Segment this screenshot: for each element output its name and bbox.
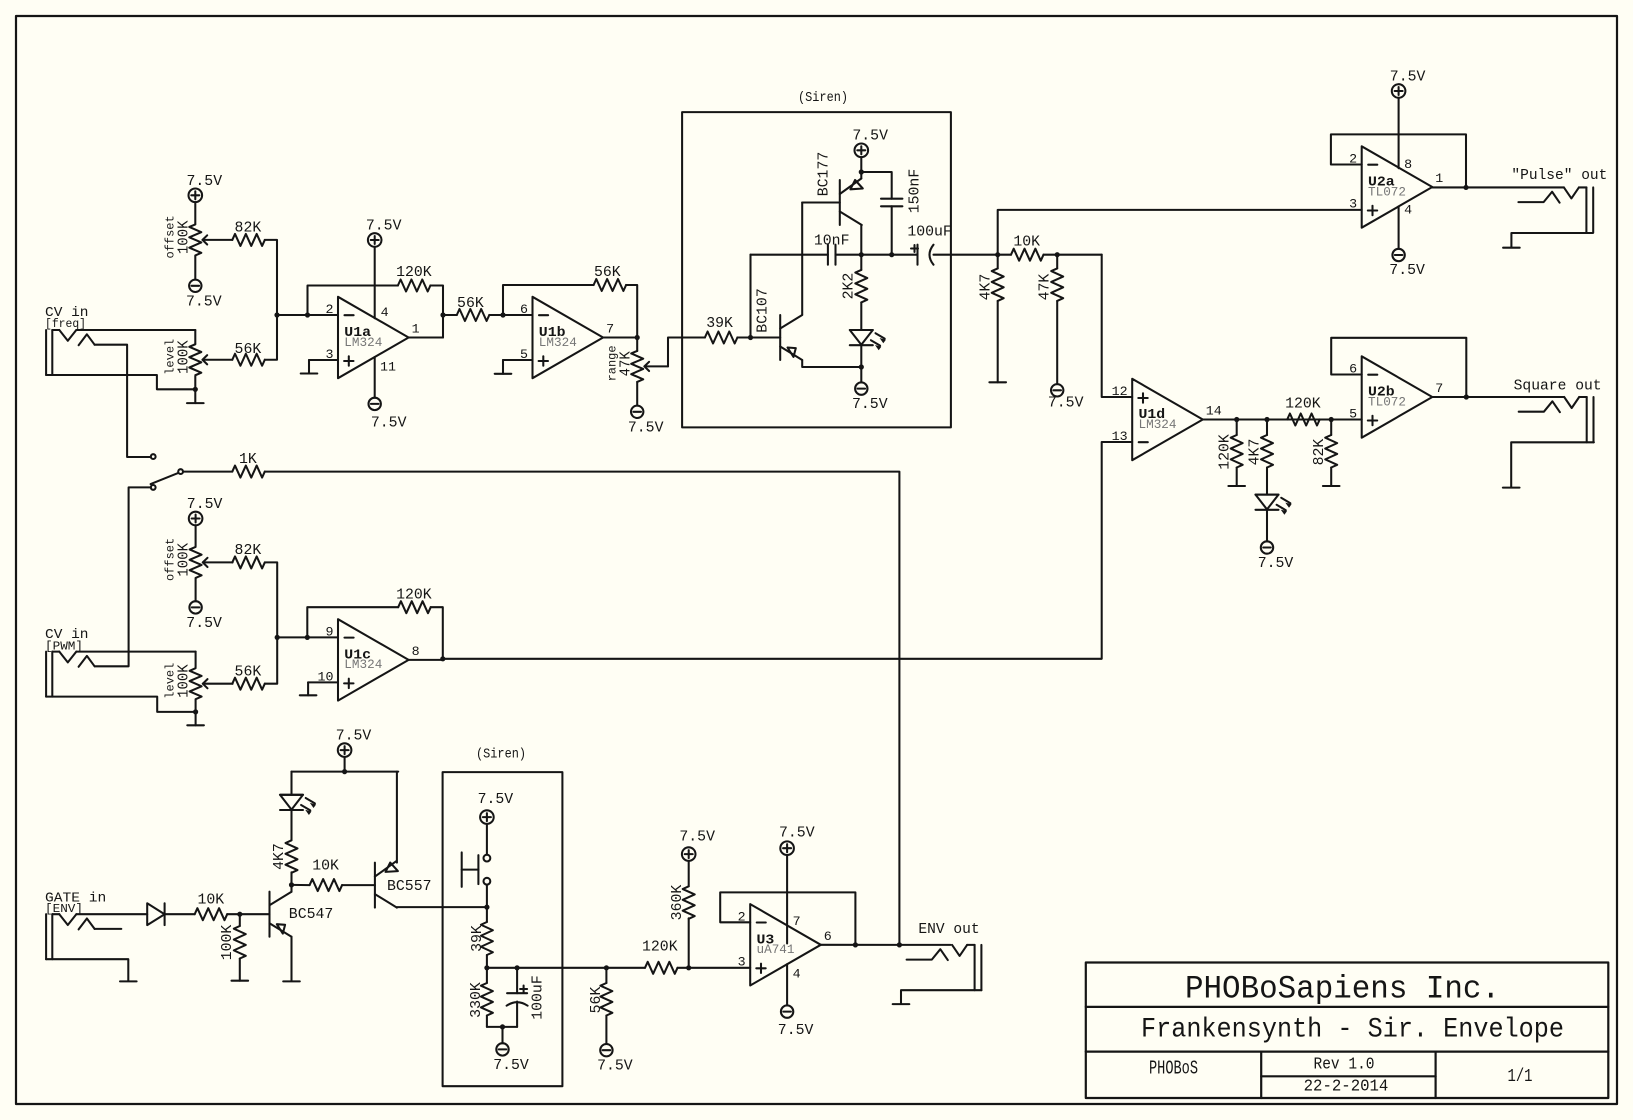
svg-text:uA741: uA741 (757, 943, 795, 957)
svg-text:TL072: TL072 (1368, 395, 1406, 409)
svg-text:39K: 39K (706, 315, 733, 332)
svg-text:(Siren): (Siren) (798, 91, 848, 106)
svg-text:7.5V: 7.5V (679, 829, 715, 846)
svg-text:13: 13 (1112, 429, 1128, 444)
svg-text:6: 6 (520, 302, 528, 317)
svg-text:47K: 47K (617, 351, 634, 376)
svg-text:4K7: 4K7 (1247, 439, 1264, 466)
svg-text:22-2-2014: 22-2-2014 (1304, 1077, 1389, 1096)
svg-text:100K: 100K (219, 925, 236, 961)
svg-text:BC107: BC107 (754, 288, 771, 333)
svg-text:10K: 10K (312, 858, 339, 875)
svg-text:4: 4 (793, 966, 801, 981)
svg-text:9: 9 (326, 624, 334, 639)
svg-text:PHOBoS: PHOBoS (1149, 1058, 1198, 1080)
svg-text:Frankensynth - Sir. Envelope: Frankensynth - Sir. Envelope (1141, 1014, 1564, 1045)
svg-text:3: 3 (1349, 197, 1357, 212)
svg-text:100K: 100K (176, 664, 193, 698)
svg-text:(Siren): (Siren) (476, 747, 526, 762)
svg-text:120K: 120K (1285, 396, 1321, 413)
svg-text:3: 3 (738, 954, 746, 969)
svg-text:7.5V: 7.5V (187, 496, 223, 513)
svg-text:LM324: LM324 (344, 658, 382, 672)
svg-text:14: 14 (1206, 404, 1222, 419)
svg-text:56K: 56K (594, 264, 621, 281)
svg-text:7.5V: 7.5V (1390, 69, 1426, 86)
svg-text:100K: 100K (175, 340, 192, 374)
svg-text:1: 1 (1435, 171, 1443, 186)
svg-text:BC177: BC177 (815, 152, 832, 197)
svg-text:11: 11 (380, 360, 396, 375)
svg-text:7.5V: 7.5V (478, 791, 514, 808)
svg-text:5: 5 (520, 347, 528, 362)
svg-text:1K: 1K (239, 451, 257, 468)
svg-text:7.5V: 7.5V (778, 1022, 814, 1039)
svg-text:120K: 120K (642, 939, 678, 956)
svg-text:10nF: 10nF (814, 233, 850, 250)
svg-text:82K: 82K (1311, 439, 1328, 466)
svg-text:ENV out: ENV out (918, 921, 979, 938)
svg-text:7.5V: 7.5V (852, 396, 888, 413)
svg-text:7.5V: 7.5V (336, 728, 372, 745)
svg-text:82K: 82K (235, 542, 262, 559)
svg-text:100uF: 100uF (529, 975, 546, 1020)
svg-text:3: 3 (326, 347, 334, 362)
svg-text:7.5V: 7.5V (186, 293, 222, 310)
svg-text:39K: 39K (469, 925, 486, 952)
svg-text:7.5V: 7.5V (628, 419, 664, 436)
svg-text:12: 12 (1112, 384, 1128, 399)
svg-text:10K: 10K (197, 892, 224, 909)
svg-text:7.5V: 7.5V (186, 615, 222, 632)
svg-text:100K: 100K (175, 221, 192, 255)
svg-text:56K: 56K (457, 295, 484, 312)
svg-text:100uF: 100uF (907, 224, 952, 241)
svg-text:7.5V: 7.5V (852, 128, 888, 145)
svg-text:BC557: BC557 (387, 878, 432, 895)
svg-text:7.5V: 7.5V (597, 1058, 633, 1075)
svg-text:82K: 82K (235, 220, 262, 237)
svg-text:2: 2 (738, 909, 746, 924)
svg-text:[PWM]: [PWM] (45, 641, 83, 654)
svg-text:7.5V: 7.5V (371, 414, 407, 431)
svg-text:[ENV]: [ENV] (45, 903, 83, 916)
svg-text:TL072: TL072 (1368, 185, 1406, 199)
svg-text:7.5V: 7.5V (1258, 555, 1294, 572)
svg-text:PHOBoSapiens Inc.: PHOBoSapiens Inc. (1185, 970, 1500, 1007)
svg-text:Rev 1.0: Rev 1.0 (1314, 1055, 1375, 1074)
svg-text:8: 8 (412, 644, 420, 659)
svg-text:10: 10 (318, 669, 334, 684)
svg-text:10K: 10K (1013, 234, 1040, 251)
svg-text:7.5V: 7.5V (493, 1057, 529, 1074)
svg-text:2: 2 (1349, 152, 1357, 167)
svg-text:4K7: 4K7 (271, 843, 288, 870)
svg-text:47K: 47K (1037, 274, 1054, 301)
svg-text:120K: 120K (396, 264, 432, 281)
svg-text:7.5V: 7.5V (187, 173, 223, 190)
svg-text:7: 7 (606, 322, 614, 337)
svg-text:LM324: LM324 (539, 336, 577, 350)
svg-text:4: 4 (381, 305, 389, 320)
svg-text:7.5V: 7.5V (1389, 262, 1425, 279)
svg-text:6: 6 (1349, 362, 1357, 377)
svg-text:330K: 330K (468, 982, 485, 1018)
svg-text:BC547: BC547 (289, 906, 334, 923)
svg-text:2: 2 (326, 302, 334, 317)
svg-text:LM324: LM324 (344, 336, 382, 350)
svg-text:1/1: 1/1 (1508, 1066, 1533, 1087)
svg-text:7.5V: 7.5V (1048, 394, 1084, 411)
svg-text:120K: 120K (1216, 434, 1233, 470)
svg-text:LM324: LM324 (1139, 418, 1177, 432)
svg-text:2K2: 2K2 (841, 273, 858, 300)
svg-text:7: 7 (1435, 381, 1443, 396)
svg-text:7.5V: 7.5V (779, 824, 815, 841)
svg-text:360K: 360K (669, 885, 686, 921)
svg-text:7: 7 (793, 914, 801, 929)
svg-text:5: 5 (1349, 407, 1357, 422)
svg-text:56K: 56K (588, 987, 605, 1014)
svg-text:56K: 56K (235, 663, 262, 680)
svg-text:1: 1 (412, 322, 420, 337)
svg-text:150nF: 150nF (906, 169, 923, 214)
svg-text:6: 6 (824, 929, 832, 944)
svg-text:Square out: Square out (1514, 378, 1602, 395)
svg-text:"Pulse" out: "Pulse" out (1511, 167, 1607, 184)
svg-text:[freq]: [freq] (45, 318, 86, 331)
svg-text:7.5V: 7.5V (366, 218, 402, 235)
svg-text:8: 8 (1404, 157, 1412, 172)
svg-text:4: 4 (1404, 203, 1412, 218)
svg-text:120K: 120K (396, 587, 432, 604)
svg-text:100K: 100K (176, 543, 193, 577)
svg-text:56K: 56K (235, 341, 262, 358)
svg-text:4K7: 4K7 (977, 274, 994, 301)
